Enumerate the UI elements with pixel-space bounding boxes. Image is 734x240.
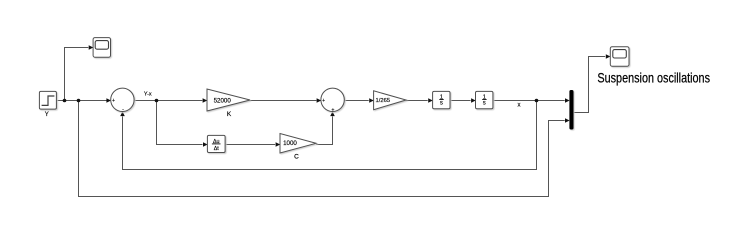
svg-text:Δt: Δt	[214, 146, 220, 152]
svg-text:1000: 1000	[283, 140, 297, 147]
svg-text:C: C	[294, 154, 299, 161]
svg-text:1/265: 1/265	[376, 98, 391, 104]
svg-text:Suspension oscillations: Suspension oscillations	[597, 71, 710, 86]
svg-text:s: s	[440, 100, 443, 106]
svg-text:x: x	[518, 102, 521, 108]
svg-text:52000: 52000	[214, 97, 232, 104]
svg-text:+: +	[112, 98, 115, 104]
svg-text:Y-x: Y-x	[144, 91, 152, 97]
svg-text:Y: Y	[45, 112, 49, 118]
svg-text:K: K	[227, 111, 232, 118]
svg-text:s: s	[483, 100, 486, 106]
svg-text:+: +	[331, 107, 334, 113]
svg-text:-: -	[122, 107, 124, 113]
svg-text:+: +	[322, 98, 325, 104]
